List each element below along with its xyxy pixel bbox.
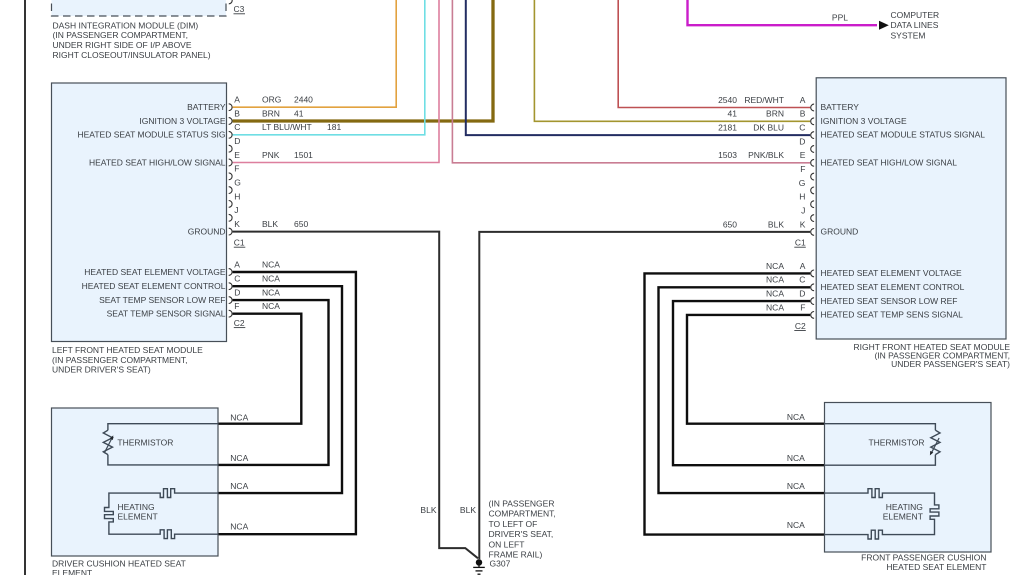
svg-text:DK BLU: DK BLU	[753, 123, 784, 133]
svg-text:NCA: NCA	[230, 521, 248, 531]
svg-text:HEATED SEAT HIGH/LOW SIGNAL: HEATED SEAT HIGH/LOW SIGNAL	[89, 157, 226, 167]
svg-text:B: B	[800, 109, 806, 119]
wire BRN 41 (right module pin B)	[534, 0, 810, 121]
svg-text:THERMISTOR: THERMISTOR	[117, 438, 173, 448]
svg-text:UNDER RIGHT SIDE OF I/P ABOVE: UNDER RIGHT SIDE OF I/P ABOVE	[53, 40, 192, 50]
wire NCA (right pin A to element bottom)	[645, 273, 825, 534]
svg-text:650: 650	[294, 219, 308, 229]
svg-text:G307: G307	[490, 558, 511, 568]
left module box	[52, 83, 227, 342]
svg-text:C2: C2	[795, 321, 806, 331]
svg-text:F: F	[800, 302, 805, 312]
svg-text:H: H	[234, 191, 240, 201]
svg-text:J: J	[234, 205, 238, 215]
svg-text:THERMISTOR: THERMISTOR	[868, 438, 924, 448]
svg-text:2181: 2181	[718, 123, 737, 133]
wire BRN 41 (left module pin B)	[233, 0, 493, 121]
svg-text:PPL: PPL	[832, 13, 848, 23]
svg-text:BATTERY: BATTERY	[821, 102, 860, 112]
svg-text:H: H	[799, 192, 805, 202]
svg-text:HEATED SEAT ELEMENT VOLTAGE: HEATED SEAT ELEMENT VOLTAGE	[821, 268, 963, 278]
svg-text:HEATED SEAT ELEMENT VOLTAGE: HEATED SEAT ELEMENT VOLTAGE	[84, 267, 226, 277]
svg-text:HEATED SEAT TEMP SENS SIGNAL: HEATED SEAT TEMP SENS SIGNAL	[821, 310, 964, 320]
svg-text:D: D	[799, 289, 805, 299]
wire BLK 650 (left module pin K to G307)	[233, 232, 478, 559]
svg-text:1501: 1501	[294, 150, 313, 160]
svg-text:DASH INTEGRATION MODULE (DIM): DASH INTEGRATION MODULE (DIM)	[53, 20, 199, 30]
svg-text:ON LEFT: ON LEFT	[489, 539, 525, 549]
svg-text:A: A	[800, 261, 806, 271]
svg-text:UNDER DRIVER'S SEAT): UNDER DRIVER'S SEAT)	[52, 365, 151, 375]
svg-text:IGNITION 3 VOLTAGE: IGNITION 3 VOLTAGE	[821, 116, 907, 126]
wire NCA (left pin C to element top)	[218, 286, 342, 493]
wire LT BLU/WHT 181 (left module pin C)	[233, 0, 425, 135]
svg-text:HEATED SEAT MODULE STATUS SIGN: HEATED SEAT MODULE STATUS SIGNAL	[821, 130, 986, 140]
svg-text:HEATED SEAT ELEMENT CONTROL: HEATED SEAT ELEMENT CONTROL	[82, 281, 226, 291]
svg-text:A: A	[800, 95, 806, 105]
wire BLK 650 (right module pin K to G307)	[479, 232, 810, 559]
svg-text:BLK: BLK	[420, 505, 436, 515]
svg-text:SYSTEM: SYSTEM	[891, 30, 926, 40]
dash integration module (DIM) box	[52, 0, 227, 16]
ground G307 symbol	[473, 560, 485, 574]
svg-text:NCA: NCA	[262, 301, 280, 311]
svg-text:NCA: NCA	[787, 412, 805, 422]
svg-text:LT BLU/WHT: LT BLU/WHT	[262, 122, 312, 132]
connector C3 bracket	[229, 0, 232, 4]
wire PNK/BLK 1503 (right module pin E)	[452, 0, 810, 163]
svg-text:NCA: NCA	[766, 275, 784, 285]
svg-text:B: B	[234, 108, 240, 118]
svg-text:BRN: BRN	[262, 108, 280, 118]
wire NCA (left pin D to thermistor bottom)	[218, 300, 329, 465]
thermistor (left) wiring	[108, 424, 218, 465]
wire PNK 1501 (left module pin E)	[233, 0, 439, 163]
svg-text:NCA: NCA	[230, 481, 248, 491]
heating element (right) loop with coils	[825, 489, 939, 539]
svg-text:IGNITION 3 VOLTAGE: IGNITION 3 VOLTAGE	[139, 116, 225, 126]
svg-text:NCA: NCA	[787, 453, 805, 463]
svg-text:C2: C2	[234, 318, 245, 328]
svg-text:SEAT TEMP SENSOR LOW REF: SEAT TEMP SENSOR LOW REF	[99, 295, 225, 305]
svg-text:(IN PASSENGER COMPARTMENT,: (IN PASSENGER COMPARTMENT,	[52, 355, 188, 365]
svg-text:2540: 2540	[718, 95, 737, 105]
svg-text:C3: C3	[234, 4, 245, 14]
right element box	[825, 403, 992, 553]
svg-text:C: C	[799, 275, 805, 285]
svg-text:BATTERY: BATTERY	[187, 102, 226, 112]
wire NCA (left pin A to element bottom)	[218, 272, 356, 534]
svg-text:ORG: ORG	[262, 95, 281, 105]
thermistor (right) wiring	[825, 424, 936, 466]
page border line	[24, 0, 26, 575]
svg-text:NCA: NCA	[787, 520, 805, 530]
svg-text:D: D	[234, 288, 240, 298]
svg-text:DATA LINES: DATA LINES	[891, 20, 939, 30]
svg-text:HEATED SEAT HIGH/LOW SIGNAL: HEATED SEAT HIGH/LOW SIGNAL	[821, 157, 958, 167]
wire NCA (right pin C to element top)	[659, 287, 825, 493]
svg-text:A: A	[234, 95, 240, 105]
arrow to computer data lines system	[879, 21, 889, 30]
thermistor (left) zigzag	[103, 430, 112, 454]
svg-text:COMPUTER: COMPUTER	[891, 10, 940, 20]
svg-text:BLK: BLK	[460, 505, 476, 515]
heating element (left) loop with coils	[105, 489, 219, 539]
svg-text:181: 181	[327, 122, 341, 132]
svg-text:GROUND: GROUND	[188, 226, 226, 236]
svg-text:GROUND: GROUND	[821, 226, 859, 236]
wire PPL to computer data lines	[688, 0, 878, 25]
svg-text:FRONT PASSENGER CUSHION: FRONT PASSENGER CUSHION	[861, 553, 986, 563]
svg-text:NCA: NCA	[262, 288, 280, 298]
svg-text:NCA: NCA	[766, 289, 784, 299]
svg-text:PNK/BLK: PNK/BLK	[748, 150, 784, 160]
wire ORG 2440 (left module pin A)	[233, 0, 397, 107]
svg-text:DRIVER'S SEAT,: DRIVER'S SEAT,	[489, 529, 554, 539]
wire NCA (right pin D to thermistor bottom)	[673, 301, 825, 465]
svg-text:D: D	[234, 136, 240, 146]
right module box	[816, 78, 1006, 339]
svg-text:NCA: NCA	[766, 261, 784, 271]
svg-text:C: C	[799, 123, 805, 133]
svg-text:1503: 1503	[718, 150, 737, 160]
left module C1 pin letters and brackets	[229, 95, 342, 235]
svg-text:BLK: BLK	[768, 219, 784, 229]
svg-text:2440: 2440	[294, 95, 313, 105]
svg-text:F: F	[234, 301, 239, 311]
svg-text:RIGHT CLOSEOUT/INSULATOR PANEL: RIGHT CLOSEOUT/INSULATOR PANEL)	[53, 50, 211, 60]
svg-text:41: 41	[294, 108, 304, 118]
thermistor (left) arrow	[104, 438, 112, 453]
svg-text:HEATING: HEATING	[118, 502, 155, 512]
svg-text:K: K	[800, 219, 806, 229]
svg-text:UNDER PASSENGER'S SEAT): UNDER PASSENGER'S SEAT)	[891, 359, 1010, 369]
svg-text:HEATED SEAT MODULE STATUS SIG: HEATED SEAT MODULE STATUS SIG	[78, 130, 226, 140]
svg-text:HEATED SEAT ELEMENT CONTROL: HEATED SEAT ELEMENT CONTROL	[821, 282, 965, 292]
thermistor (left) arrowhead	[110, 435, 113, 440]
svg-text:SEAT TEMP SENSOR SIGNAL: SEAT TEMP SENSOR SIGNAL	[107, 309, 226, 319]
svg-text:NCA: NCA	[230, 412, 248, 422]
svg-text:E: E	[234, 150, 240, 160]
svg-text:NCA: NCA	[787, 481, 805, 491]
svg-text:RED/WHT: RED/WHT	[744, 95, 784, 105]
svg-text:ELEMENT: ELEMENT	[118, 512, 158, 522]
right module C2 pin letters and brackets	[766, 261, 814, 319]
svg-text:PNK: PNK	[262, 150, 280, 160]
wire RED/WHT 2540 (right module pin A)	[618, 0, 810, 108]
svg-text:NCA: NCA	[262, 274, 280, 284]
svg-text:TO LEFT OF: TO LEFT OF	[489, 519, 538, 529]
svg-text:G: G	[234, 178, 241, 188]
wire NCA (left pin F to thermistor top)	[218, 314, 301, 424]
wire NCA (right pin F to thermistor top)	[687, 315, 825, 424]
left module C2 pin letters and brackets	[229, 259, 281, 317]
svg-text:A: A	[234, 259, 240, 269]
svg-text:(IN PASSENGER COMPARTMENT,: (IN PASSENGER COMPARTMENT,	[53, 30, 189, 40]
svg-text:C1: C1	[795, 238, 806, 248]
svg-text:650: 650	[723, 219, 737, 229]
svg-text:ELEMENT: ELEMENT	[52, 568, 92, 575]
svg-text:HEATED SEAT SENSOR LOW REF: HEATED SEAT SENSOR LOW REF	[821, 296, 958, 306]
thermistor (right) arrowhead	[930, 451, 933, 456]
svg-text:D: D	[799, 136, 805, 146]
svg-text:ELEMENT: ELEMENT	[883, 512, 923, 522]
svg-text:COMPARTMENT,: COMPARTMENT,	[489, 509, 556, 519]
svg-text:HEATED SEAT ELEMENT: HEATED SEAT ELEMENT	[886, 562, 986, 572]
svg-text:F: F	[800, 164, 805, 174]
svg-text:LEFT FRONT HEATED SEAT MODULE: LEFT FRONT HEATED SEAT MODULE	[52, 345, 203, 355]
svg-text:(IN PASSENGER: (IN PASSENGER	[489, 499, 555, 509]
left element box	[52, 408, 219, 556]
svg-text:J: J	[801, 206, 805, 216]
svg-text:F: F	[234, 164, 239, 174]
svg-text:NCA: NCA	[230, 453, 248, 463]
svg-text:E: E	[800, 150, 806, 160]
svg-text:C: C	[234, 274, 240, 284]
svg-text:G: G	[799, 178, 806, 188]
thermistor (right) arrow	[931, 438, 939, 453]
thermistor (right) zigzag	[931, 430, 940, 454]
right module C1 pin letters and brackets	[718, 95, 814, 235]
svg-text:NCA: NCA	[766, 302, 784, 312]
wire DK BLU 2181 (right module pin C)	[466, 0, 810, 135]
svg-text:NCA: NCA	[262, 259, 280, 269]
svg-text:HEATING: HEATING	[886, 502, 923, 512]
svg-text:C: C	[234, 122, 240, 132]
svg-text:BLK: BLK	[262, 219, 278, 229]
svg-text:K: K	[234, 219, 240, 229]
svg-text:C1: C1	[234, 238, 245, 248]
svg-text:41: 41	[728, 109, 738, 119]
svg-text:BRN: BRN	[766, 109, 784, 119]
